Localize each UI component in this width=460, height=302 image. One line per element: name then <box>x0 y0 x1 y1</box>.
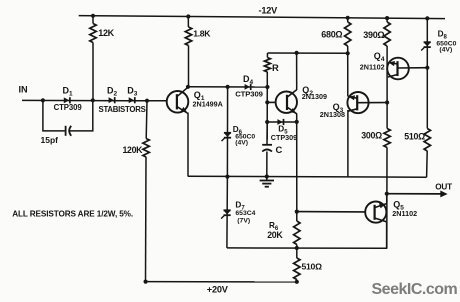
wire 120K leads <box>146 101 148 282</box>
wire C top lead <box>266 122 268 144</box>
diode D2 <box>109 97 115 103</box>
wire D8 branch <box>426 18 428 67</box>
label 510 right <box>404 132 425 142</box>
label D4 CTP309 <box>235 89 263 98</box>
node Q1 collector <box>186 85 190 89</box>
svg-text:R: R <box>272 62 279 73</box>
node Q5 base junction <box>295 210 299 214</box>
label 680 <box>321 30 342 40</box>
svg-text:C: C <box>276 144 283 155</box>
node 680/wire53 junction <box>346 51 350 55</box>
resistor 390 <box>384 22 390 46</box>
label C <box>276 144 283 155</box>
svg-text:15pf: 15pf <box>41 135 59 145</box>
svg-text:680Ω: 680Ω <box>321 30 342 40</box>
wire Q2 collector riser <box>296 53 298 90</box>
label D7 <box>235 201 245 212</box>
label D5 CTP309 <box>271 133 297 142</box>
svg-text:1.8K: 1.8K <box>193 28 211 38</box>
wire R vertical <box>266 53 268 140</box>
label D7 7V <box>237 217 250 224</box>
node Q4 collector junction <box>425 66 429 70</box>
label IN <box>19 85 29 95</box>
wire output with arrow <box>387 191 448 198</box>
resistor R <box>264 58 270 73</box>
diode D3 <box>129 97 135 103</box>
node OUT junction <box>385 192 389 196</box>
node D1 cathode junction <box>91 98 95 102</box>
ground <box>260 177 274 187</box>
label R <box>272 62 279 73</box>
label D1 <box>63 86 74 98</box>
svg-text:(4V): (4V) <box>235 139 248 146</box>
wire 680 branch <box>347 18 349 177</box>
wire input line <box>22 99 167 101</box>
capacitor 15pf <box>66 126 72 136</box>
label Q4 <box>374 51 385 63</box>
label 390 <box>363 30 384 40</box>
label D1 CTP309 <box>54 103 83 112</box>
label OUT <box>435 183 452 192</box>
wire D7 branch <box>226 177 229 248</box>
node ground junction <box>265 174 269 178</box>
label watermark <box>372 281 458 298</box>
svg-text:(7V): (7V) <box>237 217 250 224</box>
wire Q1 collector to R node <box>188 86 267 88</box>
label D6 650C0 <box>235 134 255 141</box>
svg-text:12K: 12K <box>98 28 114 38</box>
node D5 left junction <box>265 120 269 124</box>
svg-text:120K: 120K <box>123 145 144 155</box>
label D4 <box>243 74 254 86</box>
resistor 680 <box>345 22 351 46</box>
diode D5 <box>277 119 283 125</box>
wire Q2 emitter drop <box>296 114 298 123</box>
node D6/D7 junction <box>225 175 229 179</box>
label resistor note <box>12 210 133 219</box>
label D3 <box>127 86 138 98</box>
svg-text:2N1308: 2N1308 <box>320 110 345 119</box>
resistor 510 bottom <box>294 258 300 280</box>
wire +20V supply rail <box>146 281 297 283</box>
wire bypass branch <box>43 100 93 131</box>
svg-text:CTP309: CTP309 <box>235 89 263 98</box>
capacitor C <box>262 145 272 152</box>
node D5 right junction <box>295 120 299 124</box>
svg-text:653C4: 653C4 <box>235 210 255 217</box>
node R6/510 junction <box>295 246 299 250</box>
svg-text:(4V): (4V) <box>439 47 452 54</box>
wire common line <box>188 176 427 177</box>
svg-text:CTP309: CTP309 <box>271 133 297 142</box>
resistor R6 20K <box>294 221 300 245</box>
svg-text:390Ω: 390Ω <box>363 30 384 40</box>
node Q3 collector junction <box>385 100 389 104</box>
label D8 4V <box>439 47 452 54</box>
label 12K <box>98 28 114 38</box>
wire 510 right branch <box>426 68 429 178</box>
node rail/390 junction <box>385 16 389 20</box>
wire D5 link <box>267 121 297 123</box>
label 300 <box>361 130 382 140</box>
node D3/120K junction <box>145 99 149 103</box>
svg-text:2N1499A: 2N1499A <box>193 100 223 109</box>
resistor 510 right <box>424 129 430 152</box>
svg-text:+20V: +20V <box>207 285 229 295</box>
label Q5 2N1102 <box>392 209 417 218</box>
transistor Q1 <box>167 87 189 113</box>
label D2 <box>107 86 118 98</box>
wire C bottom lead <box>266 152 268 177</box>
wire 390/300 vertical <box>386 18 388 248</box>
label 510 bottom <box>302 262 323 272</box>
node +20V left corner <box>144 280 148 284</box>
svg-text:510Ω: 510Ω <box>302 262 323 272</box>
resistor 300 <box>384 129 390 148</box>
svg-text:ALL RESISTORS ARE 1/2W, 5%.: ALL RESISTORS ARE 1/2W, 5%. <box>12 210 133 219</box>
svg-text:300Ω: 300Ω <box>361 130 382 140</box>
wire Q5 collector riser <box>386 194 388 204</box>
node rail/680 junction <box>346 16 350 20</box>
node rail/12K junction <box>91 14 95 18</box>
wire 510 to +20V rail <box>296 280 298 282</box>
resistor 1.8K <box>185 27 191 46</box>
label Q2 <box>302 85 313 97</box>
label D8 650C0 <box>436 41 456 48</box>
diode D6 <box>222 133 232 141</box>
label D5 <box>278 125 288 136</box>
node rail/D8 junction <box>425 16 429 20</box>
label D8 <box>438 29 448 40</box>
node D6 top junction <box>226 85 230 89</box>
label Q2 2N1309 <box>302 92 327 101</box>
resistor 120K <box>143 139 149 158</box>
svg-text:510Ω: 510Ω <box>404 132 425 142</box>
label D6 <box>233 125 243 136</box>
svg-text:-12V: -12V <box>259 5 279 15</box>
node rail/1.8K junction <box>186 14 190 18</box>
wire 12K leads <box>92 16 94 101</box>
label 20K <box>267 230 283 240</box>
resistor 12K <box>90 24 96 43</box>
node +20V right end <box>295 280 299 284</box>
wire D6 branch <box>226 87 228 177</box>
wire Q1 emitter drop <box>187 113 189 177</box>
svg-text:SeekIC.com: SeekIC.com <box>372 281 458 298</box>
diode D4 <box>245 84 251 90</box>
diode D8 <box>421 42 431 50</box>
svg-text:20K: 20K <box>267 230 283 240</box>
svg-text:2N1102: 2N1102 <box>360 63 385 72</box>
label R6 <box>269 221 279 232</box>
transistor Q2 <box>267 90 297 114</box>
wire D7 to Q5 emitter <box>227 222 387 249</box>
svg-text:2N1102: 2N1102 <box>392 209 417 218</box>
transistor Q4 <box>387 58 427 80</box>
diode D1 <box>64 97 70 103</box>
label Q3 2N1308 <box>320 110 345 119</box>
wire Q2 emitter to R6 <box>296 122 298 221</box>
wire R6 to 510 <box>296 245 298 259</box>
node input/bypass left <box>41 98 45 102</box>
wire y53 R/Q2/680 link <box>268 52 348 54</box>
label STABISTORS <box>99 105 146 114</box>
label D6 4V <box>235 139 248 146</box>
label 15pf <box>41 135 59 145</box>
wire 1.8K leads <box>187 17 189 87</box>
node Q2 collector junction <box>295 51 299 55</box>
label Q1 <box>194 90 205 102</box>
transistor Q3 <box>347 92 387 113</box>
node Q2 base junction <box>265 100 269 104</box>
wire -12V supply rail <box>79 16 445 19</box>
svg-text:CTP309: CTP309 <box>54 103 83 112</box>
label 1.8K <box>193 28 211 38</box>
label Q1 2N1499A <box>193 100 223 109</box>
label -12V <box>259 5 279 15</box>
diode D7 <box>221 210 231 218</box>
label +20V <box>207 285 229 295</box>
node D4/R junction <box>265 85 269 89</box>
svg-text:OUT: OUT <box>435 183 452 192</box>
label D7 653C4 <box>235 210 255 217</box>
label Q3 <box>333 102 344 114</box>
label Q4 2N1102 <box>360 63 385 72</box>
svg-text:STABISTORS: STABISTORS <box>99 105 146 114</box>
svg-text:IN: IN <box>19 85 29 95</box>
svg-text:2N1309: 2N1309 <box>302 92 327 101</box>
transistor Q5 <box>297 202 387 223</box>
label 120K <box>123 145 144 155</box>
label Q5 <box>393 200 404 212</box>
